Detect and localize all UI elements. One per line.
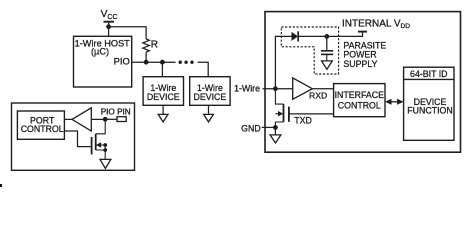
transistor Q-TXD <box>275 89 289 128</box>
svg-text:GND: GND <box>241 124 261 134</box>
channel bar <box>95 134 97 150</box>
wire device2 to ground <box>208 105 210 114</box>
wire device1 to ground <box>162 105 164 114</box>
1-Wire HOST box U-host <box>74 36 132 87</box>
svg-text:(µC): (µC) <box>91 46 109 56</box>
wire GND node to ground <box>274 127 276 134</box>
junction dot cap node <box>324 34 329 39</box>
svg-text:DEVICE: DEVICE <box>147 92 180 102</box>
wire PIO bus segment <box>132 61 176 63</box>
svg-text:FUNCTION: FUNCTION <box>407 106 452 116</box>
1-Wire DEVICE box 2 <box>190 77 230 106</box>
VCC supply rail bar <box>104 21 115 23</box>
device detail outer box <box>265 12 461 153</box>
stray caption mark bottom-left <box>0 184 2 187</box>
wire gate path from port control <box>64 131 90 147</box>
wire 1-wire riser to diode anode <box>275 36 291 88</box>
input buffer (points left) <box>72 108 91 131</box>
svg-text:DEVICE: DEVICE <box>194 92 227 102</box>
wire buffer output to port control <box>64 118 72 120</box>
ellipsis dots on bus <box>179 61 194 64</box>
wire buffer input from PIO node <box>91 118 105 120</box>
wire device1 drop <box>161 62 163 76</box>
wire bus continuation to device2 <box>198 62 209 76</box>
source lead <box>96 150 106 159</box>
svg-text:1-Wire: 1-Wire <box>234 84 260 94</box>
wire TXD gate to interface control <box>289 113 334 115</box>
junction dot PIO pin node <box>103 117 108 122</box>
gate bar <box>288 107 290 122</box>
ground PIO pulldown <box>100 159 111 168</box>
wire VCC node to resistor top <box>109 27 147 39</box>
body arrow <box>278 111 283 116</box>
PIO PIN pad <box>117 117 126 122</box>
body wire <box>101 145 105 150</box>
source lead <box>275 122 283 127</box>
gate bar <box>91 137 93 155</box>
capacitor C1 <box>321 36 333 61</box>
body stub <box>275 113 278 115</box>
64-BIT ID separator <box>404 78 454 80</box>
wire resistor bottom to PIO line <box>145 52 147 62</box>
PORT CONTROL box <box>17 111 64 139</box>
wire 1-Wire entry <box>263 88 293 90</box>
bidirectional arrow interface to device function <box>385 99 404 105</box>
wire node to pin <box>105 118 117 120</box>
svg-text:SUPPLY: SUPPLY <box>343 59 377 69</box>
dashed outline parasite supply <box>281 27 338 74</box>
svg-text:PIO: PIO <box>114 56 130 67</box>
svg-text:CONTROL: CONTROL <box>21 124 64 134</box>
op-amp RXD buffer <box>293 78 313 99</box>
DEVICE FUNCTION box <box>404 67 454 140</box>
svg-text:CONTROL: CONTROL <box>338 101 381 111</box>
body arrow <box>96 142 101 147</box>
junction dot device1 tap <box>160 60 165 65</box>
drain lead <box>96 119 106 134</box>
svg-text:INTERNAL VDD: INTERNAL VDD <box>342 18 410 30</box>
svg-text:PIO PIN: PIO PIN <box>101 108 131 117</box>
junction dot resistor/PIO <box>144 60 149 65</box>
svg-text:TXD: TXD <box>294 115 312 125</box>
1-Wire DEVICE box 1 <box>143 77 183 106</box>
junction dot GND node <box>273 125 278 130</box>
wire VDD rail to cap node <box>327 32 363 37</box>
svg-text:R: R <box>151 39 158 50</box>
svg-text:INTERFACE: INTERFACE <box>335 90 384 100</box>
wire VCC rail to host box top <box>108 22 110 37</box>
junction dot at VCC node <box>106 24 111 29</box>
ground device2 <box>204 114 214 122</box>
port detail outer box <box>12 103 135 170</box>
svg-text:64-BIT ID: 64-BIT ID <box>410 69 447 79</box>
junction dot 1-wire node <box>273 86 278 91</box>
resistor R <box>143 39 150 52</box>
transistor Q-PIO pulldown <box>92 119 106 159</box>
channel bar <box>283 104 285 122</box>
ground parasite cap <box>322 61 333 69</box>
wire GND entry <box>262 126 276 128</box>
svg-text:RXD: RXD <box>309 90 327 100</box>
INTERFACE CONTROL box <box>334 84 385 117</box>
junction dot body/source <box>103 143 107 147</box>
drain lead <box>275 89 283 104</box>
internal VDD rail bar <box>358 31 367 33</box>
diode D1 <box>292 31 327 41</box>
ground device1 <box>158 114 168 122</box>
ground device GND <box>270 135 281 143</box>
wire RXD buffer to interface control <box>312 88 333 90</box>
